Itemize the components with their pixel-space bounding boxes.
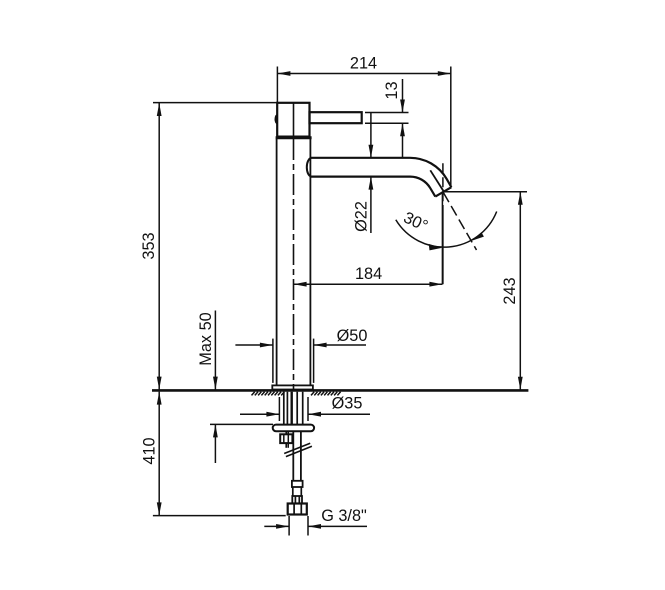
dim o22 arrows line — [370, 113, 372, 158]
dim 184 — [294, 283, 443, 285]
svg-text:410: 410 — [141, 437, 159, 464]
body column left edge — [276, 139, 278, 386]
supply hose — [292, 431, 294, 481]
countertop line — [152, 389, 528, 392]
body column right edge — [309, 139, 311, 386]
30 deg dashed axis — [443, 193, 476, 250]
arrowheads dim 353 — [157, 103, 162, 116]
dim 353 — [153, 102, 277, 104]
under-counter shank lines — [284, 392, 303, 425]
dim 243 — [444, 191, 527, 193]
svg-text:184: 184 — [355, 265, 382, 283]
dim 13 refs — [365, 112, 409, 114]
spout rounded cap — [307, 158, 312, 177]
G3/8 end nut — [288, 504, 307, 515]
stud between washer and nut — [285, 431, 287, 434]
svg-text:G 3/8": G 3/8" — [321, 507, 367, 525]
svg-text:13: 13 — [383, 81, 401, 99]
mounting washer — [273, 425, 314, 432]
arrowheads dim O35 — [266, 412, 279, 417]
stud stub below nut — [285, 443, 287, 448]
base plate — [272, 385, 313, 389]
arrowheads dim 214 — [277, 71, 290, 76]
mixer head — [277, 103, 309, 137]
arrowheads dim G 3/8 — [276, 524, 289, 529]
outlet centerline vertical — [442, 163, 444, 205]
spout inner edge line — [430, 170, 444, 192]
svg-text:Ø35: Ø35 — [332, 395, 363, 413]
arrowheads dim Max 50 — [213, 377, 218, 390]
svg-text:Ø50: Ø50 — [337, 327, 368, 345]
handle side bump — [275, 114, 278, 124]
handle lever — [310, 112, 362, 123]
hose collar — [292, 481, 303, 487]
spout bottom line — [310, 177, 435, 197]
arrowheads dim 410 — [157, 392, 162, 405]
dim g38 — [288, 516, 290, 536]
arrowheads dim 13 — [400, 100, 405, 113]
30 deg arc — [396, 212, 497, 248]
arrowheads dim O22 — [369, 145, 374, 158]
dim o35 — [278, 397, 280, 421]
arrowheads — [157, 71, 523, 529]
svg-text:214: 214 — [350, 55, 377, 73]
hose lower part — [292, 487, 294, 496]
arrowheads dim O50 — [260, 343, 273, 348]
spout end face — [435, 187, 451, 196]
dim o50 — [272, 339, 274, 383]
head bottom thick band — [276, 136, 312, 139]
svg-text:243: 243 — [501, 277, 519, 304]
svg-text:Ø22: Ø22 — [353, 201, 371, 232]
dim 214 — [276, 67, 278, 104]
spout top line — [310, 158, 451, 187]
svg-text:353: 353 — [140, 232, 158, 259]
pipe break symbol — [284, 443, 310, 453]
arc arrows — [429, 244, 442, 251]
countertop hatching — [252, 392, 341, 396]
arrowheads dim 243 — [518, 192, 523, 205]
mounting nut — [280, 434, 292, 443]
dim max50 — [214, 311, 216, 390]
arrowheads dim 184 — [294, 282, 307, 287]
svg-text:Max 50: Max 50 — [197, 312, 215, 365]
small hex section — [292, 496, 302, 504]
centerline — [293, 103, 295, 139]
dim 410 — [158, 392, 160, 516]
